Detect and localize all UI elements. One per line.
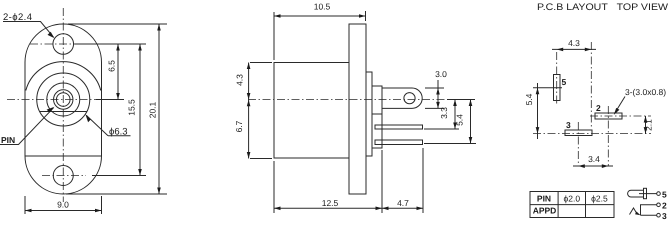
pad2 horizontal centerline [590, 115, 651, 117]
svg-text:ϕ2.0: ϕ2.0 [564, 194, 581, 204]
svg-text:9.0: 9.0 [57, 200, 69, 210]
dim 4.3 (pcb) [552, 48, 596, 50]
pad3 vertical centerline [577, 122, 579, 166]
pad5 horizontal centerline [533, 87, 562, 89]
svg-text:5: 5 [562, 77, 567, 87]
main vertical centerline [590, 42, 592, 128]
svg-text:3.3: 3.3 [439, 107, 449, 119]
svg-text:3-(3.0x0.8): 3-(3.0x0.8) [625, 87, 666, 97]
table [530, 192, 614, 218]
svg-text:PIN: PIN [537, 194, 551, 204]
top mounting hole [53, 34, 74, 55]
pad 2 [595, 113, 622, 119]
pad2 vertical centerline [607, 106, 609, 166]
body circle top arc [26, 62, 101, 91]
svg-text:4.7: 4.7 [397, 198, 409, 208]
svg-text:ϕ2.5: ϕ2.5 [591, 194, 608, 204]
top hole centerline [30, 43, 96, 45]
svg-text:5: 5 [662, 190, 667, 200]
svg-text:4.3: 4.3 [568, 38, 580, 48]
svg-text:2.1: 2.1 [644, 119, 654, 131]
tab hole [404, 93, 415, 104]
lug B [375, 140, 423, 145]
axis centerline [248, 99, 446, 101]
svg-text:5.4: 5.4 [455, 114, 465, 126]
svg-text:15.5: 15.5 [127, 99, 137, 116]
svg-text:4.3: 4.3 [235, 74, 245, 86]
seam line at bottom arc tangent [25, 155, 102, 157]
lug A [375, 125, 423, 129]
dim 2.1 [645, 116, 647, 134]
main horizontal centerline [7, 99, 124, 101]
pad 3 [565, 130, 592, 136]
pad 5 [554, 75, 561, 101]
inner circle [47, 83, 80, 116]
svg-text:5.4: 5.4 [524, 93, 534, 105]
solder tab with hole [382, 88, 422, 108]
svg-text:10.5: 10.5 [314, 2, 331, 12]
pad5 vertical centerline [556, 52, 558, 104]
dim 3.0 [425, 80, 444, 108]
dim 15.5 [92, 44, 146, 176]
jack symbol pin 5 [628, 190, 644, 197]
pin ring outer [54, 90, 73, 109]
svg-text:2: 2 [596, 103, 601, 113]
body rectangle [274, 63, 349, 159]
chord flat on barrel [40, 111, 87, 113]
dim 3.4 [573, 165, 613, 167]
pin ring inner [56, 93, 70, 107]
flange stadium outline [25, 24, 102, 194]
svg-text:P.C.B LAYOUT TOP VIEW: P.C.B LAYOUT TOP VIEW [537, 2, 668, 13]
vertical centerline [62, 8, 64, 202]
dim 5.4 (side) [424, 100, 476, 144]
dim 5.4 (pcb) [537, 83, 539, 139]
svg-text:20.1: 20.1 [148, 101, 158, 118]
svg-text:6.7: 6.7 [234, 120, 244, 132]
dim 6.7 [247, 100, 251, 107]
dim 20.1 [66, 24, 167, 194]
svg-text:APPD: APPD [533, 206, 557, 216]
bottom mounting hole [53, 166, 73, 186]
svg-text:6.5: 6.5 [107, 60, 117, 72]
dim 10.5 [274, 11, 366, 60]
boss block [372, 86, 382, 148]
dim 6.5 [75, 44, 147, 100]
barrel circle phi6.3 [37, 73, 90, 126]
svg-text:3.0: 3.0 [435, 69, 447, 79]
svg-text:3.4: 3.4 [588, 154, 600, 164]
jack symbol contacts 2/3 [657, 203, 661, 207]
dim 4.3 (side) [249, 63, 272, 159]
bottom hole centerline [42, 175, 86, 177]
svg-text:PIN: PIN [1, 135, 15, 145]
dim 4.7 [382, 148, 423, 213]
svg-text:12.5: 12.5 [322, 198, 339, 208]
dim 12.5 [274, 150, 382, 213]
svg-text:3: 3 [566, 120, 571, 130]
dim 9.0 [25, 196, 102, 214]
svg-text:3: 3 [662, 211, 667, 221]
mounting flange side [349, 24, 366, 194]
dim 3.3 [424, 100, 475, 130]
backing plate [366, 72, 372, 156]
boss washer line [372, 113, 382, 115]
svg-text:2: 2 [662, 201, 667, 211]
pad3 horizontal centerline [533, 133, 651, 135]
